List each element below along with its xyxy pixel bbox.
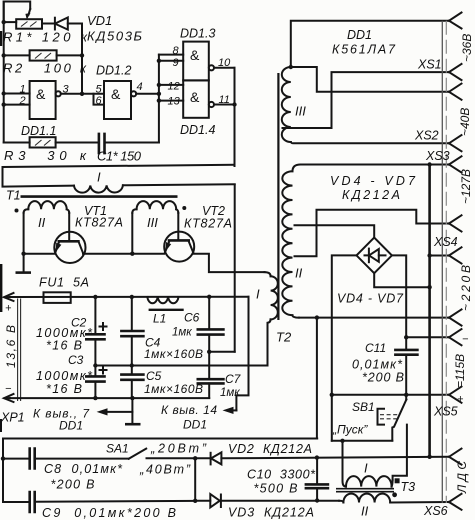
transformer T1 winding II [24, 201, 70, 213]
svg-text:C3: C3 [68, 353, 84, 367]
capacitor C9 [3, 492, 195, 512]
svg-text:VD2 КД212А: VD2 КД212А [228, 442, 312, 456]
wire to DD1 pin 7 with arrow [97, 398, 133, 423]
svg-text:−: − [462, 334, 469, 346]
left input rail node A [2, 2, 6, 143]
svg-text:VD4 - VD7: VD4 - VD7 [337, 292, 404, 306]
T1 core [21, 195, 178, 198]
svg-text:0,01мк*: 0,01мк* [352, 358, 403, 372]
connector XP1 plug pin plus [4, 293, 14, 301]
svg-text:DD1.2: DD1.2 [96, 64, 131, 78]
svg-text:II: II [295, 266, 303, 281]
wire lamp top rail vertical [427, 165, 431, 459]
wire VT1 emitter [24, 253, 55, 255]
wire feedback vertical to gates 3-4 inputs [157, 55, 184, 143]
transformer T1 winding III [132, 201, 178, 213]
transistor VT2 [164, 232, 194, 262]
socket pin XS4 [449, 247, 462, 263]
svg-text:6: 6 [96, 95, 103, 107]
transformer T3 winding II [339, 494, 448, 503]
svg-text:XS1: XS1 [417, 58, 442, 72]
svg-text:5: 5 [96, 84, 103, 96]
svg-text:R1* 120 к: R1* 120 к [3, 30, 88, 45]
svg-text:II: II [361, 504, 369, 519]
svg-text:*200 В: *200 В [362, 371, 404, 385]
wire T1-II left end to VT1 emitter node [21, 213, 25, 272]
wire T2-III top to ~40V pin step [291, 67, 448, 92]
svg-text:~220В: ~220В [459, 265, 473, 311]
svg-text:XS3: XS3 [425, 149, 450, 163]
polarity dot T1 winding III [182, 206, 186, 210]
transformer T3 winding I [343, 441, 393, 487]
resistor R2 [4, 50, 82, 60]
scan edge artifacts [0, 31, 2, 432]
connector strip double lines [442, 21, 446, 503]
wire T3 winding I right lead [393, 425, 407, 480]
svg-text:13,6 В: 13,6 В [4, 325, 18, 368]
wire to DD1 pin 14 with arrow [223, 297, 249, 414]
svg-text:12: 12 [168, 81, 180, 93]
switch SA1 [129, 449, 147, 459]
svg-text:XS4: XS4 [433, 235, 458, 249]
svg-text:*16 В: *16 В [46, 339, 82, 353]
T3 core [336, 489, 394, 492]
svg-text:C11: C11 [365, 341, 386, 355]
svg-text:1мк×160В: 1мк×160В [144, 382, 203, 396]
svg-text:T1: T1 [6, 189, 21, 203]
polarity square T3 winding I [395, 478, 400, 483]
wire T2-III tap to XS1 lower pin [283, 72, 449, 128]
svg-text:~40В: ~40В [458, 108, 472, 136]
socket pin ~220V lower [449, 309, 462, 325]
wire T2-II bottom end to ~220V lower pin [299, 315, 448, 319]
capacitor C2 [85, 297, 107, 366]
socket pin ~40V top [449, 84, 462, 100]
svg-text:C7: C7 [225, 372, 242, 386]
wire T2-II top end to XS3 pin [301, 162, 449, 166]
connector XP1 strip [18, 299, 21, 402]
svg-text:XS5: XS5 [433, 405, 458, 419]
wire midpoint rail C2C3 to C4C5 to T2 winding I bottom [93, 363, 267, 367]
svg-text:XS6: XS6 [423, 504, 448, 518]
wire T2-II tap to ~127V lower pin [295, 210, 449, 256]
bridge rectifier VD4-VD7 [357, 238, 392, 274]
svg-text:~127В: ~127В [459, 169, 473, 204]
polarity dot T1 winding II [15, 209, 19, 213]
wire T2-II tap to bridge top [295, 225, 375, 237]
svg-text:КТ827А: КТ827А [75, 216, 123, 230]
svg-text:T2: T2 [276, 330, 292, 345]
svg-text:1: 1 [20, 84, 26, 96]
wire ground rail [10, 396, 209, 400]
svg-text:II: II [38, 215, 46, 230]
wire T2-III bottom to XS2 pin [291, 142, 448, 143]
gate DD1.3 [183, 42, 214, 81]
wire XS4 pin [430, 255, 448, 257]
socket pin XS3 [449, 156, 462, 172]
svg-text:2: 2 [19, 95, 26, 107]
capacitor C7 [198, 352, 224, 398]
common bar ground symbol [125, 423, 141, 426]
wire gate1 output to gate2 input [61, 94, 104, 105]
svg-text:8: 8 [173, 45, 180, 57]
svg-text:С6: С6 [184, 311, 200, 325]
wire VD2 node down to VD3 node [193, 458, 197, 503]
svg-text:VD4 - VD7: VD4 - VD7 [330, 174, 416, 188]
svg-text:−: − [5, 383, 12, 395]
wire node B vertical (VD1/R2 to gate output) [80, 24, 84, 97]
wire T1-III right end to VT2 base [177, 213, 179, 240]
svg-text:КТ827А: КТ827А [184, 217, 232, 231]
svg-text:DD1: DD1 [59, 419, 83, 433]
transformer T2 winding III [282, 67, 291, 142]
wire winding II bottom node to rail [316, 318, 318, 439]
wire bridge bottom to XS strip vertical [374, 273, 432, 289]
capacitor C5 [121, 366, 143, 399]
common bar under VT1 emitter [16, 271, 32, 274]
wire bridge left output down to SB1 branch [330, 255, 357, 440]
svg-text:1мк: 1мк [172, 327, 192, 339]
socket pin XS6 [449, 494, 462, 510]
svg-text:1000мк*: 1000мк* [36, 369, 93, 383]
svg-text:SA1: SA1 [106, 442, 129, 456]
wire SB1 bottom to T3 winding I left [332, 439, 393, 443]
fuse FU1 [44, 292, 71, 303]
svg-text:XP1: XP1 [0, 411, 25, 425]
capacitor C3 [85, 366, 107, 399]
socket pin XS2 [449, 135, 462, 151]
svg-text:~36В: ~36В [460, 34, 474, 62]
svg-text:=115В: =115В [453, 354, 467, 388]
svg-text:C5: C5 [146, 369, 162, 383]
resistor R1 (trimmer) [4, 9, 55, 29]
inductor L1 [147, 297, 183, 310]
svg-text:XS2: XS2 [414, 129, 439, 143]
svg-text:VD3 КД212А: VD3 КД212А [228, 506, 314, 520]
svg-text:C1* 150: C1* 150 [97, 149, 142, 164]
wire VT2 collector to T2 winding I top [193, 254, 264, 272]
svg-text:III: III [147, 215, 158, 230]
svg-text:III: III [295, 104, 306, 119]
wire T1-II right end to VT1 base [68, 213, 70, 241]
socket pin XS1 [449, 64, 462, 80]
T2 core [277, 73, 279, 320]
svg-text:*16 В: *16 В [46, 382, 82, 396]
capacitor C6 [198, 297, 224, 352]
svg-text:+: + [5, 303, 12, 315]
resistor R3 [4, 137, 99, 147]
svg-text:DD1.3: DD1.3 [180, 27, 215, 41]
diode VD2 [211, 452, 222, 464]
svg-text:VD1: VD1 [87, 13, 112, 28]
transformer T2 winding I [265, 272, 278, 365]
wire top feedback loop to R1 slider [4, 2, 31, 23]
capacitor C11 [395, 337, 417, 395]
gate DD1.1 [4, 81, 61, 119]
svg-text:I: I [97, 170, 101, 185]
socket pin ~36V top [449, 13, 462, 29]
socket pin XS5 plus [449, 387, 462, 403]
wire mains left rail [1, 439, 5, 503]
svg-text:+: + [457, 394, 464, 406]
svg-text:*500 В: *500 В [254, 482, 298, 496]
wire VT1 collector to VT2 emitter [83, 252, 164, 256]
svg-text:&: & [111, 86, 121, 102]
svg-text:„40Вт”: „40Вт” [139, 463, 191, 477]
svg-text:C9 0,01мк*200 В: C9 0,01мк*200 В [42, 506, 176, 520]
wire gate outputs 10 and 11 joined [214, 68, 237, 166]
svg-text:C8 0,01мк*: C8 0,01мк* [44, 462, 123, 476]
svg-text:DD1.4: DD1.4 [180, 123, 215, 137]
svg-text:SB1: SB1 [352, 400, 375, 414]
wire -115V pin from C11 top [404, 335, 448, 339]
wire T1 winding I right end down to C6-C7 node [234, 185, 236, 352]
wire XS1 top pin from T2-III top [289, 21, 448, 70]
wire outputs to T1 winding I left end [3, 165, 235, 187]
svg-text:L1: L1 [153, 312, 166, 326]
wire lamp top long wire [221, 455, 448, 459]
socket pin -115V [449, 329, 462, 345]
svg-text:К выв. 14: К выв. 14 [161, 403, 217, 417]
pushbutton SB1 [378, 395, 407, 441]
capacitor C1 [99, 134, 159, 153]
svg-text:1мк×160В: 1мк×160В [144, 347, 203, 361]
svg-text:9: 9 [173, 57, 179, 69]
svg-text:DD1: DD1 [347, 28, 372, 42]
svg-text:I: I [256, 287, 260, 302]
wire top rail of mains section [3, 438, 317, 440]
wire T1-III left end to VT2 emitter node [131, 213, 133, 254]
transistor VT1 [54, 232, 85, 263]
wire +13.6V rail [10, 295, 249, 300]
transformer T2 winding II [282, 165, 300, 318]
diode VD1 [55, 18, 82, 30]
socket pin ~127V lower [449, 215, 462, 231]
svg-text:ЛДС: ЛДС [455, 461, 469, 494]
svg-text:&: & [36, 86, 46, 102]
svg-text:„20Вт”: „20Вт” [150, 442, 207, 456]
svg-text:I: I [364, 461, 368, 476]
svg-text:DD1: DD1 [183, 418, 207, 432]
capacitor C4 [121, 297, 143, 366]
wire SA1 to VD2 [147, 456, 211, 460]
svg-text:FU1 5А: FU1 5А [39, 276, 89, 290]
svg-text:*200 В: *200 В [51, 478, 95, 492]
svg-text:„Пуск”: „Пуск” [332, 423, 368, 437]
svg-text:Т3: Т3 [401, 480, 416, 494]
capacitor C8 [3, 449, 129, 469]
svg-text:C10 3300*: C10 3300* [247, 468, 316, 482]
svg-text:DD1.1: DD1.1 [21, 124, 56, 138]
socket pin lamp top [449, 449, 462, 465]
connector XP1 plug pin minus [4, 394, 14, 402]
svg-text:&: & [190, 89, 200, 105]
svg-text:&: & [190, 47, 200, 63]
diode VD3 [195, 494, 339, 507]
wire XS5 plus pin [332, 393, 448, 397]
svg-text:4: 4 [137, 81, 143, 93]
capacitor C10 [306, 458, 328, 501]
gate DD1.2 [104, 81, 159, 119]
wire bridge right output to C11 top [392, 255, 406, 337]
svg-text:R2 100 к: R2 100 к [3, 61, 87, 76]
wire C6 bottom node [207, 350, 235, 354]
gate DD1.4 [183, 80, 214, 117]
polarity dot T3 winding II [392, 492, 397, 497]
transformer T1 winding I [74, 184, 235, 192]
svg-text:13: 13 [168, 96, 181, 108]
